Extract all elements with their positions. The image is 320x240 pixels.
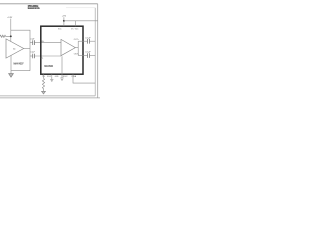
wire C2 to IN- bbox=[34, 55, 61, 57]
svg-text:+3.3V: +3.3V bbox=[7, 17, 13, 19]
svg-text:IN-: IN- bbox=[40, 57, 43, 59]
svg-text:+5V: +5V bbox=[62, 16, 67, 18]
wire VCC pin 2 bbox=[74, 21, 76, 26]
resistor RF zigzag bbox=[0, 35, 11, 37]
capacitor C1 bbox=[30, 42, 33, 44]
op-amp U2 bbox=[61, 39, 75, 55]
resistor R2 vertical bbox=[43, 74, 45, 78]
wire ground branch bbox=[11, 70, 30, 72]
svg-text:FIL1: FIL1 bbox=[47, 76, 51, 78]
wire U2 output split bbox=[75, 47, 78, 49]
capacitor C2 bbox=[30, 55, 33, 57]
wire C1 to IN+ bbox=[34, 42, 61, 44]
ground U2 bbox=[60, 77, 63, 79]
frame outer bottom border bbox=[0, 97, 100, 99]
svg-text:OUT+: OUT+ bbox=[74, 39, 79, 41]
svg-text:Av: Av bbox=[13, 48, 16, 51]
frame inner bottom border bbox=[0, 95, 95, 97]
wire VCC rail bbox=[64, 20, 98, 22]
capacitor C4 bbox=[87, 53, 89, 58]
wire U1 ground drop bbox=[10, 55, 12, 73]
wire U2 ground drop bbox=[61, 56, 63, 78]
op-amp U1 bbox=[6, 39, 24, 58]
frame top border bbox=[0, 3, 98, 5]
wire VCC drop bbox=[63, 17, 65, 26]
node VCC junction dot bbox=[63, 20, 65, 22]
wire OUT+ bbox=[78, 40, 87, 42]
ground pin 2 bbox=[51, 74, 53, 79]
svg-text:MAX3964: MAX3964 bbox=[44, 65, 53, 68]
frame inner top line bbox=[66, 7, 95, 9]
IC U2 dark box bbox=[41, 26, 83, 74]
svg-text:IN+: IN+ bbox=[42, 41, 45, 43]
frame inner right border bbox=[94, 8, 96, 96]
node A junction dot bbox=[10, 35, 12, 37]
ground arrow under U1 bbox=[9, 74, 14, 78]
wire branch to bus bbox=[11, 30, 30, 70]
wire pin 4 to right bbox=[73, 74, 95, 83]
wire photodiode vertical bbox=[10, 19, 12, 42]
svg-text:MAX4007: MAX4007 bbox=[14, 62, 24, 66]
wire OUT- bbox=[78, 55, 87, 57]
capacitor C3 bbox=[87, 39, 89, 44]
svg-text:RECEIVER SECTION: RECEIVER SECTION bbox=[28, 8, 40, 10]
frame outer right border bbox=[97, 4, 99, 98]
ground arrow under R2 bbox=[42, 91, 46, 94]
wire U1 output bbox=[24, 48, 30, 50]
